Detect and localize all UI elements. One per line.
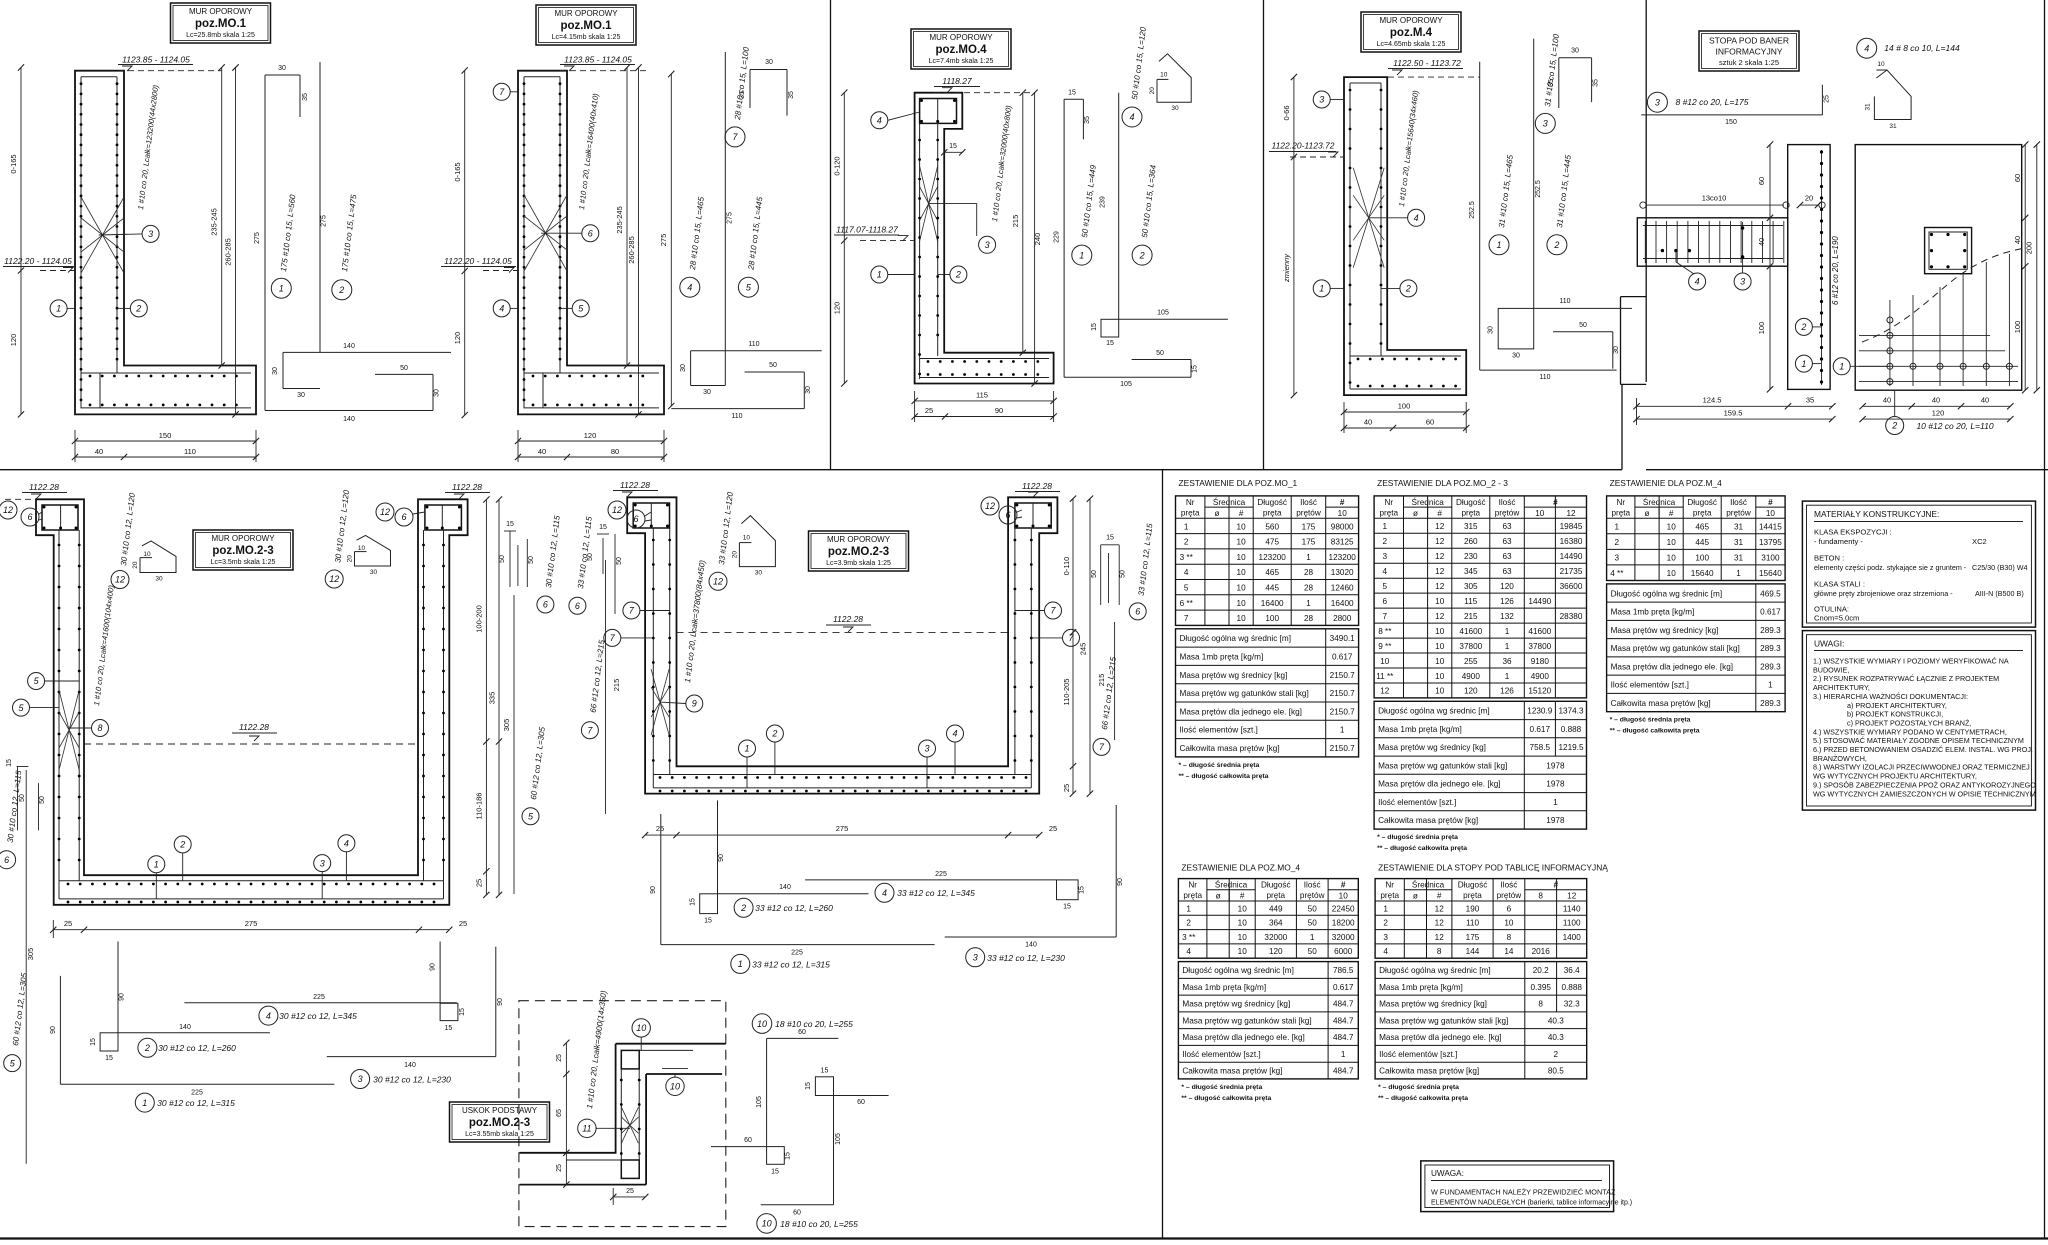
svg-text:1122.28: 1122.28 <box>1022 481 1052 491</box>
M.4 bottom dimension 100 <box>1344 411 1466 413</box>
svg-text:50: 50 <box>499 555 506 563</box>
svg-text:8: 8 <box>97 723 102 733</box>
svg-text:28380: 28380 <box>1560 612 1583 621</box>
svg-text:22450: 22450 <box>1332 904 1355 913</box>
svg-text:MUR OPOROWY: MUR OPOROWY <box>189 7 253 16</box>
svg-text:140: 140 <box>779 884 791 891</box>
svg-text:123200: 123200 <box>1329 553 1357 562</box>
svg-text:110: 110 <box>1559 298 1570 305</box>
svg-text:#: # <box>1341 881 1346 890</box>
svg-text:Długość ogólna wg średnic [m]: Długość ogólna wg średnic [m] <box>1180 634 1292 643</box>
svg-text:15120: 15120 <box>1528 687 1551 696</box>
MO.1#2 circled mark 5 with note 28 #10 co 15 L=445 <box>738 277 758 297</box>
svg-text:15640: 15640 <box>1691 569 1714 578</box>
svg-text:1123.85 - 1124.05: 1123.85 - 1124.05 <box>564 55 632 65</box>
svg-text:15: 15 <box>949 143 957 150</box>
U1 lap splice X star in left stem <box>59 690 69 730</box>
svg-text:4: 4 <box>952 729 957 739</box>
svg-text:Ilość elementów [szt.]: Ilość elementów [szt.] <box>1378 798 1456 807</box>
svg-text:1122.20 - 1124.05: 1122.20 - 1124.05 <box>4 256 72 266</box>
U2 left pentagon hook and note 33 #10 co 12 L=120 <box>739 516 775 567</box>
USKOK circled 10 right with leader <box>666 1077 684 1095</box>
U2 circled 2 note 33 #12 co 12 L=260 <box>734 898 753 917</box>
svg-text:14415: 14415 <box>1759 523 1782 532</box>
svg-text:2: 2 <box>1139 250 1145 260</box>
svg-text:10: 10 <box>1435 627 1445 636</box>
svg-text:2016: 2016 <box>1532 947 1551 956</box>
svg-text:Długość: Długość <box>1687 498 1717 507</box>
svg-text:41600: 41600 <box>1528 627 1551 636</box>
svg-text:Lc=3.55mb skala 1:25: Lc=3.55mb skala 1:25 <box>465 1131 534 1138</box>
svg-text:16400: 16400 <box>1331 599 1354 608</box>
STOPA plan circled mark 1 with leader <box>1833 358 1850 375</box>
svg-text:4: 4 <box>1383 947 1388 956</box>
frame: vertical separator drawings / tables (bottom) <box>1162 470 1164 1239</box>
M.4 circled mark 1 with note 31 #10 co 15 L=465 <box>1489 235 1509 255</box>
svg-text:215: 215 <box>1011 215 1020 228</box>
svg-text:ø: ø <box>1214 509 1219 518</box>
svg-text:484.7: 484.7 <box>1333 1033 1354 1042</box>
svg-text:105: 105 <box>835 1133 842 1145</box>
svg-text:110: 110 <box>731 413 742 420</box>
svg-text:60: 60 <box>798 1029 806 1036</box>
USKOK circled 11 with leader to star <box>578 1119 596 1137</box>
MO.1#2 circled mark 4 with note 28 #10 co 15 L=465 <box>680 277 700 297</box>
svg-text:10: 10 <box>1766 509 1776 518</box>
svg-text:140: 140 <box>404 1062 416 1069</box>
svg-text:2.) RYSUNEK ROZPATRYWAĆ ŁĄCZNI: 2.) RYSUNEK ROZPATRYWAĆ ŁĄCZNIE Z PROJEK… <box>1813 674 1999 683</box>
svg-text:12: 12 <box>1435 567 1445 576</box>
USKOK title box <box>450 1102 550 1142</box>
M.4 base rebar lines with dots <box>1350 355 1461 357</box>
svg-text:475: 475 <box>1265 538 1279 547</box>
MO.1 bar shape 2: vertical 275 with 30x30 box foot <box>319 62 321 352</box>
svg-text:Masa prętów dla jednego ele. [: Masa prętów dla jednego ele. [kg] <box>1182 1033 1304 1042</box>
svg-text:315: 315 <box>1464 522 1478 531</box>
svg-text:8: 8 <box>1437 947 1442 956</box>
svg-text:3 **: 3 ** <box>1180 553 1194 562</box>
svg-text:** – długość całkowita pręta: ** – długość całkowita pręta <box>1378 1095 1468 1102</box>
svg-text:1230.9: 1230.9 <box>1527 707 1552 716</box>
svg-text:zmienny: zmienny <box>1282 253 1291 283</box>
svg-text:15: 15 <box>1079 886 1086 894</box>
svg-text:ø: ø <box>1413 509 1418 518</box>
svg-text:20.2: 20.2 <box>1533 966 1549 975</box>
MO.1#2 bar shape 4: vertical 275 with box foot <box>724 52 726 386</box>
U2 bar shape 4: line 225 with box at right end <box>805 879 1056 881</box>
svg-text:63: 63 <box>1502 537 1512 546</box>
svg-text:Ilość elementów [szt.]: Ilość elementów [szt.] <box>1180 726 1258 735</box>
svg-text:0-165: 0-165 <box>9 154 18 173</box>
svg-text:6: 6 <box>1383 597 1388 606</box>
STOPA footing plan rebar grid verticals <box>1889 300 1891 386</box>
svg-text:31: 31 <box>1889 123 1897 130</box>
svg-text:MUR OPOROWY: MUR OPOROWY <box>554 9 618 18</box>
svg-text:12: 12 <box>115 575 125 585</box>
STOPA left dimension 60/40/100 <box>1769 145 1771 390</box>
svg-text:40: 40 <box>1932 396 1940 405</box>
svg-text:175: 175 <box>1302 522 1316 531</box>
svg-text:30: 30 <box>765 59 773 66</box>
svg-text:poz.MO.1: poz.MO.1 <box>560 20 612 32</box>
svg-text:25: 25 <box>626 1188 634 1195</box>
svg-text:WG WYTYCZNYCH ZAMIESZCZONYCH W: WG WYTYCZNYCH ZAMIESZCZONYCH W OPISIE TE… <box>1813 789 2036 798</box>
svg-text:10: 10 <box>1667 554 1677 563</box>
USKOK circled 10 top with leader <box>632 1019 650 1037</box>
M.4 circled mark 3 <box>1313 91 1330 108</box>
svg-text:Długość ogólna wg średnic [m]: Długość ogólna wg średnic [m] <box>1378 707 1490 716</box>
svg-text:6000: 6000 <box>1334 947 1353 956</box>
U2 circled marks 12 and 6 at right cap <box>981 497 999 515</box>
svg-text:15: 15 <box>1091 323 1098 331</box>
svg-text:60: 60 <box>744 1137 752 1144</box>
svg-text:10: 10 <box>1237 553 1247 562</box>
svg-text:252.5: 252.5 <box>1469 201 1476 219</box>
svg-text:ZESTAWIENIE DLA POZ.MO_1: ZESTAWIENIE DLA POZ.MO_1 <box>1179 478 1298 488</box>
U1 base slab rebar lines with dots <box>59 880 444 882</box>
M.4 circled mark 2 with note 31 #10 co 15 L=445 <box>1547 235 1567 255</box>
MO.4 stem rebar lines with dots <box>919 123 921 379</box>
svg-text:Masa 1mb pręta [kg/m]: Masa 1mb pręta [kg/m] <box>1378 725 1462 734</box>
table ZESTAWIENIE DLA STOPY POD TABLICĘ INFORMACYJNĄ: summary block <box>1375 962 1587 1079</box>
svg-text:1: 1 <box>1736 569 1741 578</box>
STOPA plan circled mark 2 with note 10 #12 co 20 L=110 <box>1894 390 1896 416</box>
svg-text:INFORMACYJNY: INFORMACYJNY <box>1715 47 1782 57</box>
svg-text:MUR OPOROWY: MUR OPOROWY <box>211 534 275 543</box>
U1 circled 1 note 30 #12 co 12 L=315 <box>135 1093 154 1112</box>
svg-text:6: 6 <box>4 855 9 865</box>
svg-text:Masa prętów wg średnicy [kg]: Masa prętów wg średnicy [kg] <box>1180 671 1288 680</box>
svg-text:1: 1 <box>1383 904 1388 913</box>
svg-text:255: 255 <box>1464 657 1478 666</box>
frame: vertical separator between MO.1 group and MO.4 <box>830 0 832 470</box>
wall outline (L-shape) <box>75 71 256 415</box>
svg-text:15640: 15640 <box>1759 569 1782 578</box>
svg-text:28: 28 <box>1304 584 1314 593</box>
svg-text:** – długość całkowita pręta: ** – długość całkowita pręta <box>1179 773 1269 780</box>
svg-text:0.617: 0.617 <box>1332 653 1353 662</box>
svg-text:C25/30 (B30) W4: C25/30 (B30) W4 <box>1972 563 2028 572</box>
MO.1#2 bottom dimension 40 | 80 <box>518 456 664 458</box>
svg-text:10: 10 <box>1435 657 1445 666</box>
svg-text:40: 40 <box>1981 396 1989 405</box>
svg-text:4900: 4900 <box>1462 672 1481 681</box>
svg-text:50: 50 <box>400 365 408 372</box>
svg-text:#: # <box>1553 498 1558 507</box>
MO.1 circled mark 2 with note 175 #10 co 15 L=475 <box>332 280 352 300</box>
svg-text:225: 225 <box>313 994 325 1001</box>
U1 bottom dimension 25 | 275 | 25 <box>53 929 449 931</box>
svg-text:120: 120 <box>1269 947 1283 956</box>
svg-text:pręta: pręta <box>1611 508 1630 517</box>
svg-text:2150.7: 2150.7 <box>1330 744 1355 753</box>
svg-text:4: 4 <box>1129 112 1134 122</box>
svg-text:275: 275 <box>254 232 261 244</box>
MO.1#2 dimension 275 <box>670 74 672 406</box>
svg-text:10: 10 <box>762 1219 772 1229</box>
STOPA T-footing: wall outline <box>1788 145 1830 390</box>
U1 bar shape 4: line 225 with box at right end and vertical 90 <box>184 1002 456 1004</box>
svg-text:Długość: Długość <box>1456 498 1486 507</box>
svg-text:15: 15 <box>599 524 607 531</box>
svg-text:33 #12 co 12, L=230: 33 #12 co 12, L=230 <box>987 953 1065 963</box>
bar 10 diagrams: upper note 18 #10 co 20 L=255 <box>752 1014 772 1034</box>
MO.4 circled mark 2 with note 50 #10 co 15 L=364 <box>1132 245 1152 265</box>
STOPA footing plan bar dots <box>1887 363 1893 369</box>
svg-text:Masa prętów wg gatunków stali: Masa prętów wg gatunków stali [kg] <box>1378 762 1507 771</box>
MO.4 top stirrup box <box>920 99 957 124</box>
svg-text:1123.85 - 1124.05: 1123.85 - 1124.05 <box>122 55 190 65</box>
svg-text:1: 1 <box>1505 627 1510 636</box>
svg-text:2: 2 <box>955 270 961 280</box>
M.4 circled mark 4 with leader from star <box>1408 209 1425 226</box>
svg-text:* – długość średnia pręta: * – długość średnia pręta <box>1610 717 1691 724</box>
table ZESTAWIENIE DLA POZ.MO_4: grid <box>1178 879 1358 959</box>
svg-text:484.7: 484.7 <box>1333 1000 1354 1009</box>
svg-text:1: 1 <box>1319 284 1324 294</box>
svg-text:445: 445 <box>1265 584 1279 593</box>
STOPA footing plan column square with stirrup <box>1925 228 1972 274</box>
STOPA slab bottom bar dots row with circled mark 4 <box>1661 249 1664 252</box>
svg-text:1219.5: 1219.5 <box>1558 743 1583 752</box>
svg-text:50: 50 <box>616 557 623 565</box>
svg-text:90: 90 <box>430 963 437 971</box>
U1 right circled 5 note 60 #12 co 12 L=305 <box>522 808 539 825</box>
svg-text:10: 10 <box>1667 523 1677 532</box>
USKOK lap splice X star <box>621 1107 630 1125</box>
svg-text:** – długość całkowita pręta: ** – długość całkowita pręta <box>1377 845 1467 852</box>
svg-text:a) PROJEKT ARCHITEKTURY,: a) PROJEKT ARCHITEKTURY, <box>1847 701 1947 710</box>
svg-text:15: 15 <box>704 918 712 925</box>
svg-text:1122.28: 1122.28 <box>833 614 863 624</box>
MO.1#2 circled mark 7 with note 28 #10 co 15 L=100 <box>725 127 745 147</box>
svg-text:2: 2 <box>1186 919 1191 928</box>
svg-text:4: 4 <box>499 304 504 314</box>
svg-text:0-66: 0-66 <box>1282 105 1291 120</box>
svg-text:36600: 36600 <box>1560 582 1583 591</box>
svg-text:289.3: 289.3 <box>1760 626 1781 635</box>
svg-text:33 #12 co 12, L=345: 33 #12 co 12, L=345 <box>897 888 975 898</box>
svg-text:6.) PRZED BETONOWANIEM OSADZIĆ: 6.) PRZED BETONOWANIEM OSADZIĆ ELEM. INS… <box>1813 745 2033 754</box>
svg-text:150: 150 <box>1725 119 1737 126</box>
svg-text:30: 30 <box>1171 105 1179 112</box>
STOPA bar 3 line 150 with 25 hook <box>1641 114 1822 116</box>
svg-text:10: 10 <box>1237 614 1247 623</box>
svg-text:9180: 9180 <box>1531 657 1550 666</box>
STOPA bottom dimension 124.5 | 35 <box>1637 405 1833 407</box>
svg-text:240: 240 <box>1033 233 1042 246</box>
svg-text:10: 10 <box>1435 642 1445 651</box>
svg-text:12: 12 <box>612 505 622 515</box>
U1 circled 4 note 30 #12 co 12 L=345 <box>259 1006 278 1025</box>
svg-text:15: 15 <box>6 759 13 767</box>
STOPA wall spacing dim 20 <box>1800 204 1818 206</box>
svg-text:1: 1 <box>877 270 882 280</box>
STOPA plan right dimension 60/40/100 <box>2024 145 2026 391</box>
svg-text:25: 25 <box>556 1054 563 1062</box>
STOPA wall vertical rebar with dots <box>1821 150 1823 385</box>
svg-text:1978: 1978 <box>1546 816 1565 825</box>
svg-text:1: 1 <box>1505 642 1510 651</box>
svg-text:4: 4 <box>1864 43 1869 53</box>
svg-text:3: 3 <box>148 229 153 239</box>
svg-text:W FUNDAMENTACH NALEŻY PRZEWIDZ: W FUNDAMENTACH NALEŻY PRZEWIDZIEĆ MONTAŻ <box>1431 1188 1616 1197</box>
MO.1#2 right dimension lines 235-245 / 260-285 <box>626 68 628 366</box>
svg-text:25: 25 <box>1062 784 1071 792</box>
svg-text:1: 1 <box>744 744 749 754</box>
svg-text:120: 120 <box>1500 582 1514 591</box>
svg-text:33 #12 co 12, L=260: 33 #12 co 12, L=260 <box>755 903 833 913</box>
svg-text:100-200: 100-200 <box>475 605 484 633</box>
svg-text:BRANŻOWYCH,: BRANŻOWYCH, <box>1813 754 1867 763</box>
STOPA wall circled marks 2 and 1 <box>1795 318 1812 335</box>
svg-text:15: 15 <box>1068 90 1076 97</box>
svg-text:ELEMENTÓW NADLEGŁYCH (barierki: ELEMENTÓW NADLEGŁYCH (barierki, tablice … <box>1431 1198 1632 1207</box>
svg-text:13co10: 13co10 <box>1702 194 1727 203</box>
svg-text:30: 30 <box>297 392 305 399</box>
svg-text:0.888: 0.888 <box>1561 725 1582 734</box>
U2 base slab rebar lines with dots <box>653 774 1031 776</box>
svg-text:BUDOWIE,: BUDOWIE, <box>1813 665 1849 674</box>
svg-text:30 #12 co 12, L=315: 30 #12 co 12, L=315 <box>157 1098 235 1108</box>
svg-text:Ilość: Ilość <box>1300 498 1317 507</box>
svg-text:10: 10 <box>1160 72 1168 79</box>
svg-text:4: 4 <box>687 282 692 292</box>
svg-text:6: 6 <box>633 514 638 524</box>
svg-text:229: 229 <box>1054 231 1061 243</box>
svg-text:110-186: 110-186 <box>475 793 484 820</box>
svg-text:35: 35 <box>788 91 795 99</box>
svg-text:19845: 19845 <box>1560 522 1583 531</box>
U1 slab circled marks 1-4 with leaders <box>148 856 165 873</box>
svg-text:90: 90 <box>119 993 126 1001</box>
U2 circled 3 note 33 #12 co 12 L=230 <box>966 948 985 967</box>
svg-text:STOPA POD BANER: STOPA POD BANER <box>1709 36 1789 46</box>
svg-text:1122.20-1123.72: 1122.20-1123.72 <box>1271 141 1334 151</box>
svg-text:30: 30 <box>805 386 812 394</box>
svg-text:12: 12 <box>1435 612 1445 621</box>
svg-text:15: 15 <box>821 1068 829 1075</box>
MO.4 bar shape 1: hook 15/35, vertical 229, bottom 105 <box>1064 98 1083 100</box>
U1 right bar-5 line 305 <box>513 595 515 894</box>
M.4 bar shape 3: double hook 30/35/35 at top <box>1559 57 1592 59</box>
svg-text:6: 6 <box>27 512 32 522</box>
svg-text:12: 12 <box>1567 892 1577 901</box>
svg-text:25: 25 <box>475 879 484 887</box>
svg-text:Ilość elementów [szt.]: Ilość elementów [szt.] <box>1379 1050 1457 1059</box>
svg-text:Średnica: Średnica <box>1213 496 1246 507</box>
svg-text:** – długość całkowita pręta: ** – długość całkowita pręta <box>1181 1095 1271 1102</box>
svg-text:ZESTAWIENIE DLA POZ.MO_4: ZESTAWIENIE DLA POZ.MO_4 <box>1181 863 1300 873</box>
svg-text:10: 10 <box>1238 919 1248 928</box>
U1 right circled 6 note 30 #10 co 12 L=115 <box>537 596 554 613</box>
svg-text:30: 30 <box>1571 48 1579 55</box>
M.4 circled mark 3 with note 31 #10 co 15 L=100 <box>1535 113 1555 133</box>
svg-text:8: 8 <box>1538 892 1543 901</box>
svg-text:Długość ogólna wg średnic [m]: Długość ogólna wg średnic [m] <box>1611 589 1723 598</box>
svg-text:Całkowita masa prętów [kg]: Całkowita masa prętów [kg] <box>1379 1067 1479 1076</box>
svg-text:3490.1: 3490.1 <box>1330 634 1355 643</box>
svg-text:35: 35 <box>1806 396 1814 405</box>
MO.4 circled mark 1 <box>871 266 888 283</box>
svg-text:10: 10 <box>1338 509 1348 518</box>
U2 circled 1 note 33 #12 co 12 L=315 <box>731 954 750 973</box>
svg-text:364: 364 <box>1269 919 1283 928</box>
svg-text:2: 2 <box>1800 322 1806 332</box>
svg-text:275: 275 <box>245 919 258 928</box>
svg-text:120: 120 <box>1464 687 1478 696</box>
svg-text:Masa prętów wg średnicy [kg]: Masa prętów wg średnicy [kg] <box>1378 743 1486 752</box>
svg-text:14 # 8 co 10, L=144: 14 # 8 co 10, L=144 <box>1884 43 1960 53</box>
U2 right stem rebar lines with dots <box>1014 528 1016 775</box>
svg-text:1: 1 <box>154 859 159 869</box>
svg-text:Masa prętów wg średnicy [kg]: Masa prętów wg średnicy [kg] <box>1379 1000 1487 1009</box>
svg-text:30: 30 <box>755 570 763 577</box>
MO.4 circled mark 2 <box>950 266 967 283</box>
svg-text:41600: 41600 <box>1459 627 1482 636</box>
svg-text:3: 3 <box>985 240 990 250</box>
table ZESTAWIENIE DLA POZ.M_4: summary block <box>1607 584 1786 712</box>
stem rebar lines with bar dots <box>523 77 525 409</box>
svg-text:Nr: Nr <box>1384 498 1393 507</box>
svg-text:50: 50 <box>1091 570 1098 578</box>
svg-text:40: 40 <box>1883 396 1891 405</box>
svg-text:50: 50 <box>1120 570 1127 578</box>
svg-text:3: 3 <box>1655 97 1660 107</box>
svg-text:36: 36 <box>1502 657 1512 666</box>
svg-text:11 **: 11 ** <box>1376 672 1394 681</box>
svg-text:8.) WARSTWY IZOLACJI PRZECIWWO: 8.) WARSTWY IZOLACJI PRZECIWWODNEJ ORAZ … <box>1813 763 2030 772</box>
svg-text:30: 30 <box>680 364 687 372</box>
svg-text:140: 140 <box>179 1024 191 1031</box>
svg-text:90: 90 <box>995 406 1003 415</box>
svg-text:140: 140 <box>343 416 355 423</box>
MO.4 base rebar lines with dots <box>920 358 1049 360</box>
svg-text:30: 30 <box>1613 346 1620 354</box>
svg-text:289.3: 289.3 <box>1760 662 1781 671</box>
svg-text:2150.7: 2150.7 <box>1330 707 1355 716</box>
svg-text:15: 15 <box>506 521 514 528</box>
svg-text:50: 50 <box>1579 322 1587 329</box>
U2 left stem rebar lines with dots <box>652 528 654 788</box>
svg-text:1: 1 <box>1768 681 1773 690</box>
svg-text:Lc=3.9mb skala 1:25: Lc=3.9mb skala 1:25 <box>826 560 891 567</box>
svg-text:13020: 13020 <box>1331 568 1354 577</box>
U2 circled 4 note 33 #12 co 12 L=345 <box>875 883 894 902</box>
svg-text:445: 445 <box>1695 538 1709 547</box>
svg-text:35: 35 <box>302 93 309 101</box>
svg-text:10: 10 <box>1435 672 1445 681</box>
svg-text:1122.20 - 1124.05: 1122.20 - 1124.05 <box>444 256 512 266</box>
svg-text:3: 3 <box>973 953 978 963</box>
svg-text:12: 12 <box>1435 537 1445 546</box>
svg-text:2: 2 <box>1405 284 1411 294</box>
svg-text:#: # <box>1240 892 1245 901</box>
svg-text:#: # <box>1437 892 1442 901</box>
svg-text:Nr: Nr <box>1385 881 1394 890</box>
svg-text:31: 31 <box>1734 523 1744 532</box>
svg-text:115: 115 <box>1464 597 1477 606</box>
svg-text:12: 12 <box>1435 933 1445 942</box>
svg-text:2: 2 <box>179 840 185 850</box>
MO.1 circled bar mark 2 <box>130 300 147 317</box>
svg-text:0.617: 0.617 <box>1333 983 1354 992</box>
svg-text:1374.3: 1374.3 <box>1558 707 1583 716</box>
svg-text:10: 10 <box>1238 933 1248 942</box>
svg-text:poz.MO.2-3: poz.MO.2-3 <box>828 546 889 558</box>
svg-text:1: 1 <box>1340 726 1345 735</box>
svg-text:pręta: pręta <box>1263 508 1282 517</box>
